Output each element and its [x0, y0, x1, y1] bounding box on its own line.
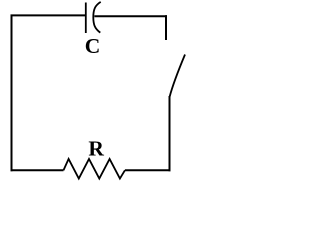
capacitor C1 right curved plate — [93, 2, 100, 33]
wire: top right horizontal (capacitor to corner) — [94, 15, 167, 17]
wire: right vertical side (lower switch terminal to bottom corner) — [169, 96, 171, 171]
wire: bottom right horizontal — [125, 169, 171, 171]
resistor R1 zigzag — [64, 159, 125, 179]
wire: left vertical side — [11, 15, 13, 172]
svg-text:C: C — [85, 34, 101, 58]
wire: top left horizontal (to capacitor) — [11, 14, 86, 16]
wire: bottom left horizontal — [11, 169, 64, 171]
svg-text:R: R — [88, 136, 104, 160]
switch S1 blade (open) — [170, 55, 185, 97]
wire: top right corner stub (upper switch terminal) — [165, 15, 167, 40]
capacitor C1 left plate — [85, 3, 87, 34]
